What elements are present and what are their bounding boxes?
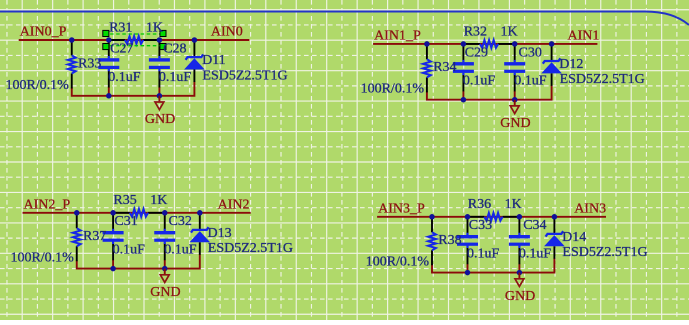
svg-text:100R/0.1%: 100R/0.1% [366, 255, 430, 270]
wire capacitor C32 lower stub [164, 260, 166, 269]
svg-text:R34: R34 [433, 60, 456, 75]
svg-text:D14: D14 [562, 230, 586, 245]
svg-text:AIN0: AIN0 [211, 25, 243, 40]
junction node AIN0_P / R33 [69, 37, 75, 43]
wire capacitor C29 lower stub [462, 91, 464, 100]
wire net AIN3_P horizontal [377, 216, 606, 218]
capacitor C28 [149, 40, 170, 88]
svg-text:100R/0.1%: 100R/0.1% [5, 78, 69, 93]
svg-text:AIN1_P: AIN1_P [374, 28, 421, 43]
junction node GND rail [157, 93, 163, 99]
svg-text:GND: GND [505, 289, 535, 304]
capacitor C30 [504, 44, 525, 92]
svg-text:0.1uF: 0.1uF [514, 74, 547, 89]
wire capacitor C33 lower stub [467, 264, 469, 273]
svg-text:C34: C34 [523, 218, 546, 233]
svg-text:GND: GND [150, 285, 180, 300]
junction node C32 top [162, 210, 168, 216]
svg-text:D13: D13 [208, 226, 232, 241]
svg-text:C30: C30 [519, 45, 542, 60]
svg-text:R31: R31 [109, 20, 132, 35]
wire (blue bus/border line, top) [0, 12, 689, 26]
svg-text:R37: R37 [83, 229, 106, 244]
junction node D13 top [197, 210, 203, 216]
resistor R32 (series 1K) [463, 40, 514, 48]
junction node C31 top [110, 210, 116, 216]
resistor R37 (shunt 100R) [73, 213, 81, 261]
junction node AIN1_P / R34 [424, 41, 430, 47]
svg-text:ESD5Z2.5T1G: ESD5Z2.5T1G [562, 245, 647, 260]
svg-text:C33: C33 [469, 218, 492, 233]
resistor R38 (shunt 100R) [428, 217, 436, 265]
junction node D12 top [549, 41, 555, 47]
junction node D14 top [552, 214, 558, 220]
junction node C33 bottom [465, 270, 471, 276]
capacitor C31 [103, 213, 124, 260]
svg-text:ESD5Z2.5T1G: ESD5Z2.5T1G [208, 241, 293, 256]
wire capacitor C30 lower stub [514, 91, 516, 100]
junction node GND rail [512, 97, 518, 103]
junction node GND rail [517, 270, 523, 276]
junction node C27 top [106, 37, 112, 43]
svg-text:1K: 1K [505, 197, 522, 212]
svg-text:AIN3: AIN3 [574, 201, 606, 216]
svg-text:D11: D11 [202, 53, 226, 68]
junction node C29 bottom [461, 97, 467, 103]
junction node C29 top [461, 41, 467, 47]
svg-text:0.1uF: 0.1uF [467, 247, 500, 262]
svg-text:R33: R33 [78, 56, 101, 71]
resistor R31 (series 1K) [109, 36, 160, 44]
svg-text:0.1uF: 0.1uF [108, 70, 141, 85]
wire capacitor C28 lower stub [158, 87, 160, 96]
resistor R33 (shunt 100R) [68, 40, 76, 89]
wire net AIN2_P horizontal [23, 212, 251, 214]
svg-text:1K: 1K [150, 193, 167, 208]
wire capacitor C34 lower stub [518, 264, 520, 273]
svg-text:1K: 1K [146, 20, 163, 35]
junction node C28 top [157, 37, 163, 43]
svg-text:ESD5Z2.5T1G: ESD5Z2.5T1G [202, 68, 287, 83]
junction node AIN3_P / R38 [429, 214, 435, 220]
resistor R34 (shunt 100R) [423, 44, 431, 93]
svg-text:AIN1: AIN1 [568, 28, 600, 43]
wire bottom ground rail [72, 82, 195, 96]
svg-text:0.1uF: 0.1uF [159, 70, 192, 85]
svg-text:GND: GND [145, 112, 175, 127]
ground GND [505, 273, 535, 304]
svg-text:C32: C32 [169, 214, 192, 229]
capacitor C33 [457, 217, 478, 264]
svg-text:0.1uF: 0.1uF [519, 247, 552, 262]
junction node AIN2_P / R37 [74, 210, 80, 216]
ground GND [145, 96, 175, 127]
svg-text:AIN2: AIN2 [218, 197, 250, 212]
selection dashed box around R31 [104, 34, 166, 46]
diode D12 (ESD TVS) [541, 44, 562, 86]
resistor R35 (series 1K) [113, 209, 165, 217]
wire bottom ground rail [427, 85, 552, 99]
selection handles R31 [103, 30, 166, 49]
svg-text:1K: 1K [501, 24, 518, 39]
junction node C33 top [465, 214, 471, 220]
svg-text:AIN3_P: AIN3_P [378, 201, 425, 216]
svg-text:AIN0_P: AIN0_P [20, 25, 67, 40]
svg-text:R32: R32 [464, 24, 487, 39]
wire bottom ground rail [432, 258, 554, 272]
svg-text:R35: R35 [113, 193, 136, 208]
wire bottom ground rail [77, 254, 200, 268]
capacitor C32 [154, 213, 175, 260]
svg-text:C29: C29 [465, 45, 488, 60]
wire net AIN0_P horizontal [19, 39, 250, 41]
svg-text:R36: R36 [468, 197, 491, 212]
svg-text:AIN2_P: AIN2_P [24, 197, 71, 212]
junction node C30 top [512, 41, 518, 47]
svg-text:C31: C31 [114, 214, 137, 229]
wire capacitor C27 lower stub [108, 87, 110, 96]
wire net AIN1_P horizontal [373, 43, 597, 45]
capacitor C34 [509, 217, 530, 264]
svg-text:R38: R38 [438, 233, 461, 248]
svg-text:C27: C27 [110, 41, 133, 56]
capacitor C29 [453, 44, 474, 92]
ground GND [500, 100, 530, 131]
diode D13 (ESD TVS) [190, 213, 211, 255]
svg-text:100R/0.1%: 100R/0.1% [10, 251, 74, 266]
svg-text:0.1uF: 0.1uF [164, 243, 197, 258]
resistor R36 (series 1K) [468, 213, 520, 221]
ground GND [150, 269, 180, 300]
junction node GND rail [162, 266, 168, 272]
svg-text:0.1uF: 0.1uF [463, 74, 496, 89]
junction node C27 bottom [106, 93, 112, 99]
junction node C34 top [517, 214, 523, 220]
svg-text:D12: D12 [559, 57, 583, 72]
capacitor C27 [98, 40, 119, 88]
junction node C31 bottom [110, 266, 116, 272]
svg-text:GND: GND [500, 116, 530, 131]
junction node D11 top [192, 37, 198, 43]
svg-text:ESD5Z2.5T1G: ESD5Z2.5T1G [560, 72, 645, 87]
wire capacitor C31 lower stub [112, 260, 114, 269]
svg-text:100R/0.1%: 100R/0.1% [361, 82, 425, 97]
svg-text:0.1uF: 0.1uF [113, 243, 146, 258]
diode D14 (ESD TVS) [544, 217, 565, 259]
svg-text:C28: C28 [163, 41, 186, 56]
diode D11 (ESD TVS) [184, 40, 205, 82]
